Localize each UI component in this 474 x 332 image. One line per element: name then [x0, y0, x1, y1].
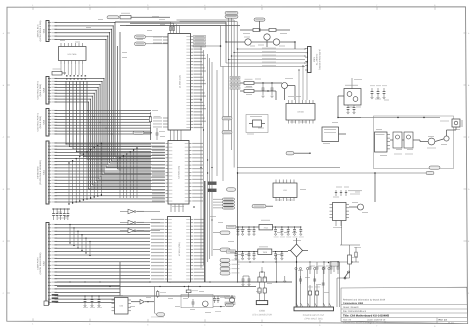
- svg-text:POWER INPUT CN7: POWER INPUT CN7: [303, 314, 325, 317]
- svg-text:CN8: CN8: [43, 87, 46, 92]
- svg-text:Id: 1/1: Id: 1/1: [448, 321, 455, 324]
- svg-text:4: 4: [204, 4, 205, 7]
- svg-text:3: 3: [147, 4, 148, 7]
- svg-text:LED CONNECTOR: LED CONNECTOR: [252, 314, 272, 317]
- svg-text:KiCad E.D.A. kicad 5.1.5+dfsg: KiCad E.D.A. kicad 5.1.5+dfsg1-1: [343, 321, 375, 324]
- svg-text:7: 7: [376, 325, 377, 328]
- svg-text:U28 7406: U28 7406: [68, 53, 78, 56]
- svg-text:CN10: CN10: [259, 310, 266, 313]
- svg-text:KEYBOARD: KEYBOARD: [37, 166, 40, 179]
- svg-text:6: 6: [319, 324, 320, 327]
- svg-text:Commodore 1982: Commodore 1982: [343, 302, 364, 305]
- svg-text:CN9: CN9: [43, 119, 46, 124]
- svg-text:(24-PIN MALE EDGE): (24-PIN MALE EDGE): [39, 252, 42, 274]
- svg-text:CONTROL PORT1: CONTROL PORT1: [37, 112, 40, 131]
- svg-text:Rev: 1.0: Rev: 1.0: [439, 319, 448, 322]
- svg-text:3: 3: [147, 323, 148, 326]
- svg-text:7: 7: [376, 4, 377, 7]
- svg-text:5: 5: [261, 4, 262, 7]
- svg-text:(MALE DB9): (MALE DB9): [39, 116, 42, 129]
- svg-text:2: 2: [89, 4, 90, 7]
- svg-text:File: C64Sch94HB.sch: File: C64Sch94HB.sch: [343, 310, 367, 313]
- svg-text:4: 4: [204, 324, 205, 327]
- svg-text:2: 2: [89, 323, 90, 326]
- svg-text:CN2: CN2: [43, 261, 46, 266]
- svg-text:USER PORT: USER PORT: [37, 256, 40, 269]
- svg-text:(MALE DB9): (MALE DB9): [39, 84, 42, 97]
- svg-text:1: 1: [32, 323, 33, 326]
- svg-text:U7 6510 (CPU): U7 6510 (CPU): [178, 242, 181, 256]
- svg-text:5: 5: [261, 324, 262, 327]
- svg-text:CN3: CN3: [313, 57, 316, 62]
- svg-text:CN4: CN4: [43, 28, 46, 33]
- svg-text:1: 1: [32, 4, 33, 7]
- svg-text:U2 6526 (CIA): U2 6526 (CIA): [178, 166, 181, 179]
- svg-text:Title: C64 Motherboard KU-1419: Title: C64 Motherboard KU-14194HB: [343, 314, 389, 317]
- svg-text:SERIAL BUS: SERIAL BUS: [37, 24, 40, 37]
- svg-text:Size: A3: Size: A3: [343, 319, 352, 322]
- svg-text:| Date: 2020-05-19: | Date: 2020-05-19: [367, 319, 386, 322]
- svg-text:(20-PIN MALE HEADER): (20-PIN MALE HEADER): [39, 160, 42, 185]
- svg-text:8: 8: [434, 4, 435, 7]
- svg-text:8: 8: [434, 325, 435, 328]
- svg-text:U8 556: U8 556: [297, 111, 304, 114]
- svg-text:U1 6526 (CIA): U1 6526 (CIA): [178, 75, 181, 88]
- svg-text:(7PIN MALE DIN): (7PIN MALE DIN): [304, 318, 322, 321]
- svg-text:Sheet: /Sheet1/: Sheet: /Sheet1/: [343, 306, 359, 309]
- svg-text:CN1: CN1: [43, 170, 46, 175]
- svg-text:(6-PIN MALE EDGE): (6-PIN MALE EDGE): [318, 49, 321, 70]
- svg-text:CONTROL PORT2: CONTROL PORT2: [37, 80, 40, 99]
- svg-text:6: 6: [319, 4, 320, 7]
- svg-text:(6-PIN FEMALE DIN): (6-PIN FEMALE DIN): [39, 20, 42, 41]
